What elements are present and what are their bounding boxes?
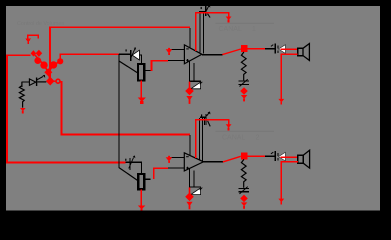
node: output junction square (ch2) — [241, 153, 248, 160]
wire: LS1 return to rail arrow — [278, 54, 297, 105]
pin: U2 V+ red pin — [195, 120, 197, 158]
svg-text:CANAL: CANAL — [222, 135, 245, 142]
svg-text:2: 2 — [256, 135, 260, 142]
rail arrow below C5 — [241, 95, 247, 101]
node: junction below U1 — [185, 82, 194, 96]
resistor R3 (ch2 load) — [241, 159, 246, 187]
node: output junction square (ch1) — [241, 45, 248, 52]
wire: coupling arrow to pot P2 — [119, 168, 138, 181]
pin: U1 bottom pins — [189, 61, 195, 81]
capacitor C9 (ch2 output coupling) — [265, 151, 286, 161]
off-page connector arrow (top-left bracket) — [25, 35, 38, 44]
node: diamond below C5 — [240, 87, 248, 95]
potentiometer P1 — [138, 64, 152, 80]
wire: coupling arrow to pot P1 — [119, 61, 137, 73]
wire: C4 to speaker LS1 — [281, 48, 298, 50]
capacitor C5 (ch1 to rail, trimmer) — [238, 80, 249, 85]
wire: U1 power to rail arrow (top right) — [195, 12, 232, 23]
wire: P2 wiper to U2 + input — [153, 168, 185, 180]
svg-text:Control de Volumen: Control de Volumen — [17, 21, 64, 27]
rail arrow below U2 — [186, 202, 192, 210]
node D2 circle — [50, 61, 57, 68]
rail arrow below U1 — [186, 96, 192, 104]
potentiometer P2 — [138, 174, 150, 189]
rule above CANAL 2 — [216, 131, 275, 132]
wire: junction G to lower bus via ring — [60, 81, 62, 135]
wire: lower bus to op-amp U2 pin — [60, 134, 190, 136]
capacitor C4 (ch1 output coupling) — [265, 44, 286, 54]
wire: square to C4 — [248, 48, 265, 50]
resistor R2 (ch1 load) — [241, 52, 246, 80]
rail arrow below C10 — [241, 202, 247, 208]
pin: U1 top pin to bus — [189, 28, 190, 48]
wire: top bus to op-amp U1 pin — [49, 27, 190, 29]
diode D1 (input network) — [22, 75, 46, 87]
feedback arrow at U1 - input — [166, 48, 173, 55]
wire: LS2 return to rail arrow — [278, 161, 298, 204]
svg-text:1: 1 — [252, 26, 256, 33]
capacitor C10 (ch2 to rail, trimmer) — [238, 188, 249, 193]
wire: C9 to speaker LS2 — [281, 157, 298, 159]
node G diamond — [46, 77, 55, 86]
svg-text:CANAL: CANAL — [219, 26, 242, 33]
op-amp U1 — [184, 45, 202, 64]
capacitor C1 (channel1 input, with trimmer arrow) — [119, 47, 142, 63]
speaker LS2 — [298, 150, 310, 168]
pin: U2 bottom pins — [189, 168, 195, 186]
resistor R1 (to rail) — [19, 82, 24, 108]
wire: vertical feed from top bus to junction G — [49, 27, 51, 79]
pin: U1 cap pins — [200, 12, 204, 54]
wire: U2 power to rail arrow — [195, 119, 232, 131]
wire: U2 output — [204, 156, 241, 162]
speaker LS1 — [298, 44, 310, 61]
wire: diagonal A-C-D — [33, 53, 50, 81]
wire: cluster corner to channel1 input — [59, 54, 119, 60]
terminal ring H — [56, 79, 60, 83]
wire: P1 bottom to rail arrow — [138, 81, 146, 105]
pin: U1 V+ red pin — [195, 13, 197, 50]
rail arrow below R1 — [20, 108, 26, 114]
capacitor C7 (U2 top, trimmer) — [200, 112, 211, 127]
wire: diagonal E-D2-F — [48, 61, 60, 72]
capacitor C8 (below U2) — [189, 186, 203, 194]
node B diamond — [36, 50, 43, 57]
node cluster: junction blobs — [31, 50, 64, 86]
pin: U2 cap pins — [199, 118, 203, 161]
node A diamond — [31, 50, 37, 56]
wire: U1 inverting stub — [170, 49, 184, 50]
wire: P1 wiper to U1 + input — [151, 60, 185, 71]
wire: P2 bottom to rail arrow — [138, 189, 146, 210]
node E circle — [57, 58, 63, 64]
pin: U2 top pin to bus — [189, 135, 190, 156]
capacitor C6 (channel2 input, trimmer) — [125, 156, 141, 174]
op-amp U2 — [184, 153, 203, 171]
wire: pot gang coupling vertical — [118, 54, 119, 168]
wire: square to C9 — [248, 156, 265, 158]
node C circle — [34, 57, 41, 64]
feedback arrow at U2 - input — [166, 156, 173, 163]
node: diamond below C10 — [240, 195, 248, 203]
wire: rail to channel2 input horizontal — [6, 162, 126, 164]
node: junction below U2 — [185, 187, 194, 201]
capacitor C3 (below U1) — [189, 81, 203, 89]
rule above CANAL 1 — [216, 23, 275, 24]
label: CANAL 2 — [222, 135, 260, 142]
wire: U2 inverting stub — [170, 157, 184, 158]
node D circle — [40, 61, 47, 68]
capacitor C2 (U1 top, trimmer) — [199, 5, 210, 18]
wire: rail to cluster horizontal — [6, 54, 30, 56]
wire: G to ring H — [50, 81, 56, 82]
label: CANAL 1 — [219, 26, 257, 33]
label: title text (faint) — [17, 21, 64, 27]
wire: left rail vertical — [6, 54, 8, 163]
node F diamond — [44, 68, 52, 76]
wire: U1 output — [202, 49, 241, 55]
